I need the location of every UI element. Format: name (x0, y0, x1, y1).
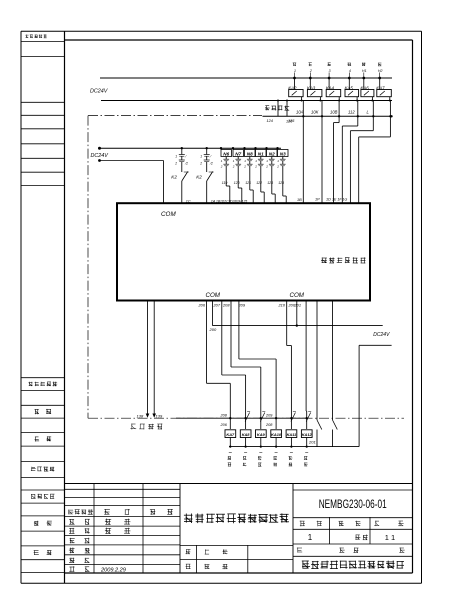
svg-text:139: 139 (156, 414, 163, 419)
svg-text:1: 1 (200, 155, 202, 159)
svg-text:KA12: KA12 (302, 432, 313, 437)
svg-text:206: 206 (198, 303, 206, 308)
svg-text:1: 1 (294, 69, 296, 73)
svg-text:H1: H1 (362, 69, 367, 73)
svg-text:2: 2 (199, 162, 202, 166)
svg-text:201: 201 (308, 440, 316, 445)
svg-text:H2: H2 (378, 69, 383, 73)
svg-text:2: 2 (232, 165, 235, 169)
svg-text:N8: N8 (247, 152, 253, 157)
svg-text:112: 112 (348, 110, 355, 115)
svg-text:2009.2.29: 2009.2.29 (100, 567, 126, 573)
svg-text:1B: 1B (297, 198, 302, 202)
svg-text:121: 121 (245, 181, 251, 185)
svg-text:10A: 10A (296, 110, 304, 115)
svg-text:4: 4 (349, 69, 351, 73)
svg-text:207: 207 (213, 303, 221, 308)
svg-text:2: 2 (276, 165, 279, 169)
svg-text:N6: N6 (223, 152, 229, 157)
svg-text:⁄2: ⁄2 (210, 162, 214, 166)
svg-text:200: 200 (209, 327, 217, 332)
svg-text:10K: 10K (311, 110, 319, 115)
svg-text:DC24V: DC24V (90, 88, 109, 94)
svg-text:KA7: KA7 (376, 86, 385, 91)
svg-text:206: 206 (220, 423, 228, 427)
svg-text:1 1: 1 1 (385, 533, 395, 542)
svg-text:208: 208 (220, 414, 228, 418)
svg-text:2: 2 (220, 165, 223, 169)
svg-text:KA11: KA11 (287, 432, 297, 437)
svg-text:N2: N2 (269, 152, 275, 157)
svg-text:2: 2 (254, 165, 257, 169)
svg-text:1: 1 (175, 155, 177, 159)
svg-text:K2: K2 (171, 175, 177, 180)
svg-text:N1: N1 (258, 152, 264, 157)
svg-text:KA8: KA8 (242, 432, 251, 437)
svg-text:KA5: KA5 (345, 86, 354, 91)
svg-text:119: 119 (222, 181, 228, 185)
svg-text:N7: N7 (235, 152, 241, 157)
svg-text:⁄2: ⁄2 (185, 162, 189, 166)
svg-text:124: 124 (278, 181, 284, 185)
svg-text:N3: N3 (280, 152, 286, 157)
svg-text:DC24V: DC24V (91, 153, 110, 159)
svg-text:NEMBG230-06-01: NEMBG230-06-01 (319, 499, 387, 511)
svg-text:COM: COM (290, 292, 305, 299)
svg-text:COM: COM (206, 292, 221, 299)
svg-text:210: 210 (278, 303, 286, 308)
svg-text:10B: 10B (330, 110, 338, 115)
svg-text:2: 2 (265, 165, 268, 169)
svg-text:1P: 1P (315, 198, 320, 202)
svg-text:126: 126 (286, 120, 293, 124)
svg-text:K2: K2 (196, 175, 202, 180)
svg-text:KA3: KA3 (307, 86, 316, 91)
svg-text:KA10: KA10 (271, 432, 282, 437)
svg-text:DC24V: DC24V (373, 332, 390, 338)
svg-text:2: 2 (243, 165, 246, 169)
svg-text:2: 2 (174, 162, 177, 166)
svg-text:1: 1 (308, 533, 313, 542)
svg-text:KA4: KA4 (326, 86, 335, 91)
svg-text:1D: 1D (326, 198, 331, 202)
svg-text:KA7: KA7 (226, 432, 235, 437)
svg-text:123: 123 (267, 181, 273, 185)
svg-text:COM: COM (161, 211, 176, 218)
svg-text:KA9: KA9 (257, 432, 266, 437)
svg-text:1E 1F 1G: 1E 1F 1G (332, 198, 348, 202)
svg-text:208: 208 (265, 423, 273, 427)
svg-text:3: 3 (329, 69, 331, 73)
svg-text:209: 209 (265, 414, 273, 418)
svg-text:KA6: KA6 (360, 86, 369, 91)
svg-text:201: 201 (294, 303, 302, 308)
svg-text:138: 138 (137, 414, 144, 419)
svg-text:2: 2 (309, 69, 312, 73)
svg-text:120: 120 (234, 181, 240, 185)
svg-text:KA2: KA2 (288, 86, 297, 91)
svg-text:124: 124 (267, 119, 273, 123)
svg-text:122: 122 (256, 181, 262, 185)
svg-text:208: 208 (222, 303, 230, 308)
